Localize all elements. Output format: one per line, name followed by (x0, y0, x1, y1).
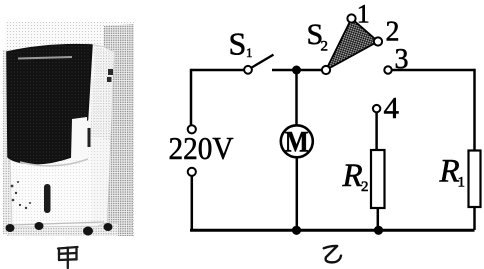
svg-text:R: R (342, 158, 363, 194)
svg-text:S: S (229, 26, 247, 62)
svg-text:1: 1 (458, 175, 466, 191)
svg-text:4: 4 (384, 90, 400, 125)
svg-text:3: 3 (395, 44, 409, 75)
svg-text:2: 2 (361, 179, 369, 195)
svg-text:R: R (439, 154, 460, 190)
svg-text:220V: 220V (169, 130, 234, 166)
svg-text:1: 1 (246, 45, 253, 60)
svg-text:2: 2 (321, 39, 329, 55)
svg-text:1: 1 (357, 0, 370, 28)
svg-text:M: M (285, 125, 309, 158)
